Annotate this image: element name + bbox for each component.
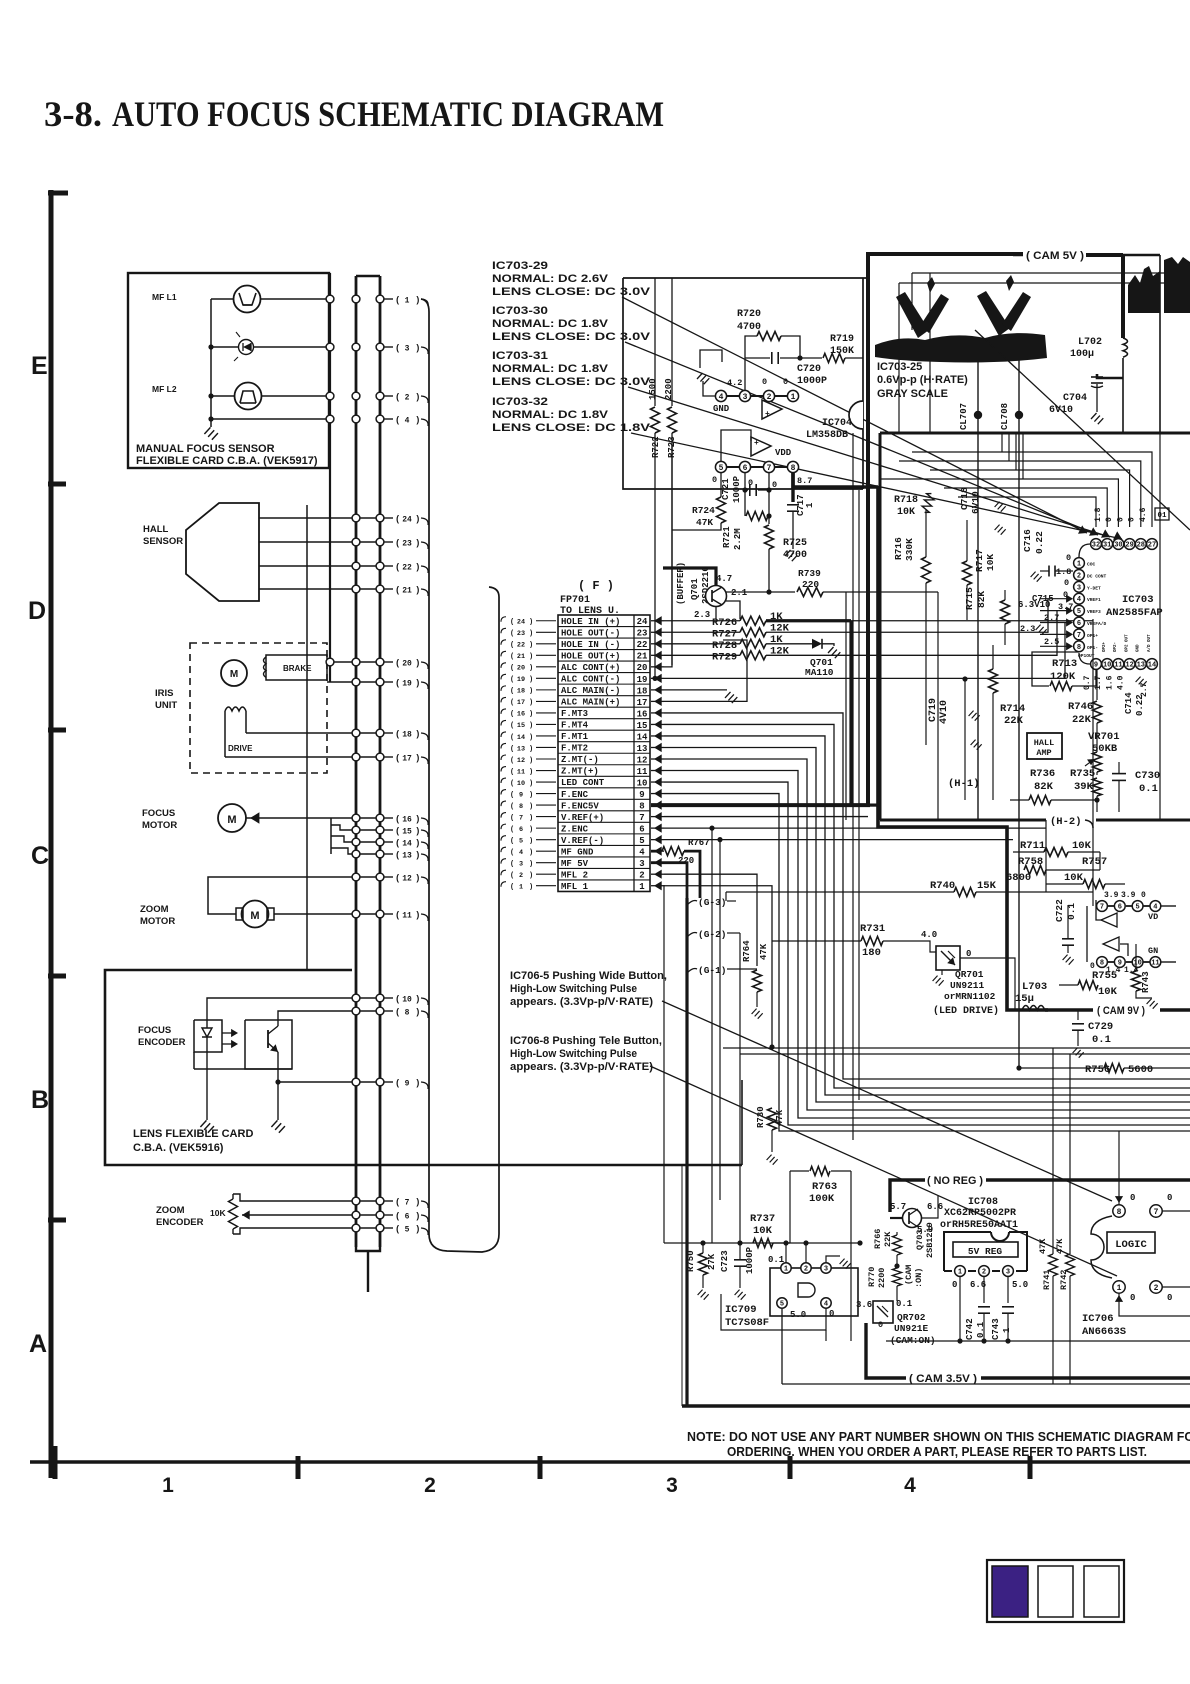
- svg-text:High-Low Switching Pulse: High-Low Switching Pulse: [510, 1048, 637, 1060]
- svg-text:V.REF(-): V.REF(-): [561, 836, 604, 846]
- svg-text:23: 23: [517, 630, 525, 638]
- bottom heavy rail: [682, 1404, 1190, 1408]
- svg-text:NORMAL: DC 1.8V: NORMAL: DC 1.8V: [492, 363, 609, 375]
- swatch outer box: [987, 1560, 1124, 1622]
- FP701 pin 2 hook: [501, 870, 506, 875]
- svg-text:9: 9: [1094, 662, 1098, 670]
- svg-text:5V REG: 5V REG: [968, 1246, 1003, 1257]
- FP701 pin 23 hook: [501, 628, 506, 633]
- svg-text:(: (: [395, 562, 400, 572]
- svg-text:): ): [415, 994, 420, 1004]
- bus junction circles row 13: [352, 850, 360, 858]
- svg-text:(: (: [395, 295, 400, 305]
- svg-text:4: 4: [824, 1301, 828, 1309]
- svg-text:(: (: [510, 768, 514, 776]
- digital transistor QR702: [873, 1301, 893, 1323]
- svg-text:IC703: IC703: [1122, 594, 1154, 606]
- svg-text:R714: R714: [1000, 703, 1025, 715]
- svg-text:IC706-8 Pushing Tele Button,: IC706-8 Pushing Tele Button,: [510, 1035, 662, 1047]
- svg-text:0: 0: [952, 1280, 957, 1290]
- svg-text:82K: 82K: [1034, 781, 1054, 793]
- svg-text:(: (: [510, 826, 514, 834]
- svg-text:): ): [529, 688, 533, 696]
- FP701 pin 17 hook: [501, 697, 506, 702]
- connector pin ( 4 ): [384, 418, 393, 420]
- svg-text:R728: R728: [712, 640, 737, 652]
- FP701 pin 1 hook: [501, 882, 506, 887]
- svg-text:6: 6: [1118, 904, 1122, 912]
- svg-text:C716: C716: [1022, 529, 1033, 552]
- svg-text:0: 0: [878, 1320, 883, 1330]
- svg-text:ENCODER: ENCODER: [138, 1037, 186, 1048]
- IC704 board box: [623, 278, 863, 489]
- svg-text:2: 2: [767, 393, 772, 402]
- svg-text:AN6663S: AN6663S: [1082, 1326, 1126, 1338]
- svg-text:2: 2: [1154, 1284, 1159, 1293]
- leader line IC703-30: [625, 342, 1098, 535]
- svg-text:3: 3: [743, 393, 748, 402]
- svg-text:LM358DB: LM358DB: [806, 430, 848, 441]
- svg-text:21: 21: [517, 653, 525, 661]
- svg-text:7: 7: [1077, 632, 1081, 640]
- svg-text:4: 4: [639, 848, 645, 858]
- bus junction circles row 4: [326, 415, 334, 423]
- svg-text:MFL 1: MFL 1: [561, 882, 589, 892]
- FP701 pin 5 hook: [501, 836, 506, 841]
- svg-text:A/D OUT: A/D OUT: [1147, 634, 1152, 652]
- svg-text:3: 3: [1077, 584, 1081, 592]
- svg-text:R755: R755: [1092, 970, 1117, 982]
- svg-text:): ): [415, 873, 420, 883]
- svg-text:): ): [529, 849, 533, 857]
- svg-text:2.7: 2.7: [1044, 613, 1059, 623]
- cable loop line: [421, 299, 499, 1252]
- svg-text:16: 16: [402, 815, 412, 824]
- svg-text:(: (: [395, 994, 400, 1004]
- svg-text:R767: R767: [688, 838, 710, 848]
- svg-text:2: 2: [1077, 572, 1081, 580]
- ground pin4: [703, 381, 715, 396]
- hall amp box: [1027, 733, 1062, 759]
- wire IC708 pin1 down: [959, 1277, 961, 1341]
- bus junction circles row 9: [352, 1078, 360, 1086]
- svg-text:10: 10: [1103, 662, 1111, 670]
- bus junction circles row 18: [352, 729, 360, 737]
- wire encoder to pin9: [278, 1081, 380, 1083]
- svg-text:ALC MAIN(+): ALC MAIN(+): [561, 698, 620, 708]
- svg-text:9: 9: [639, 790, 644, 800]
- connector pin ( 14 ): [384, 841, 393, 843]
- svg-text:6800: 6800: [1006, 872, 1031, 884]
- svg-text:NORMAL: DC 1.8V: NORMAL: DC 1.8V: [492, 318, 609, 330]
- svg-text:Q701: Q701: [690, 578, 700, 600]
- connector pin ( 7 ): [384, 1200, 393, 1202]
- svg-text:GRAY SCALE: GRAY SCALE: [877, 388, 948, 400]
- wire FP701 pin 10 run: [664, 782, 1190, 1125]
- svg-text:3: 3: [639, 859, 644, 869]
- svg-text:0: 0: [712, 475, 717, 485]
- svg-text:(: (: [395, 826, 400, 836]
- svg-text:(: (: [510, 803, 514, 811]
- svg-text:R766: R766: [873, 1229, 883, 1249]
- svg-text:0: 0: [783, 377, 788, 387]
- wire pin5 run: [664, 839, 1013, 841]
- svg-text:3-8.: 3-8.: [44, 94, 102, 134]
- wires lower-left of IC703: [937, 592, 939, 820]
- drive coil: [225, 707, 246, 711]
- resistor R729: [664, 654, 740, 656]
- wire IC709 pin5 down: [781, 1309, 783, 1384]
- svg-text:19: 19: [637, 675, 648, 685]
- svg-text:IC703-29: IC703-29: [492, 260, 548, 272]
- svg-text:): ): [415, 1007, 420, 1017]
- wire FP701 pin 11 run: [664, 771, 1190, 1118]
- svg-text:R715: R715: [964, 587, 975, 610]
- wire drive to bus 18: [246, 732, 380, 734]
- svg-text:): ): [415, 1224, 420, 1234]
- feedback wire pin5: [721, 430, 751, 461]
- svg-text:1: 1: [162, 1474, 174, 1497]
- connector pin ( 17 ): [384, 756, 393, 758]
- svg-text:ZOOM: ZOOM: [156, 1205, 185, 1216]
- svg-text:D: D: [28, 597, 46, 625]
- FP701 pin 3 hook: [501, 859, 506, 864]
- bus junction circles row 17: [352, 753, 360, 761]
- bus junction circles row 10: [352, 994, 360, 1002]
- svg-text:6V10: 6V10: [970, 491, 981, 514]
- wire pin1 run: [664, 886, 772, 1047]
- svg-text::ON): :ON): [914, 1268, 924, 1288]
- wire zoom motor lower: [274, 913, 380, 915]
- wire Q701 collector thick: [663, 568, 716, 586]
- svg-text:(: (: [510, 642, 514, 650]
- svg-text:): ): [529, 630, 533, 638]
- svg-text:150K: 150K: [830, 346, 854, 357]
- svg-text:OP2 OUT: OP2 OUT: [1125, 634, 1129, 652]
- svg-text:5: 5: [780, 1301, 784, 1309]
- svg-text:24: 24: [637, 617, 648, 627]
- svg-text:MF 5V: MF 5V: [561, 859, 589, 869]
- thick vertical trunk: [685, 898, 688, 1406]
- svg-text:(: (: [510, 884, 514, 892]
- IC709 logic gate: [770, 1268, 858, 1316]
- svg-text:3: 3: [824, 1266, 828, 1274]
- svg-text:4: 4: [1077, 596, 1081, 604]
- svg-text:F.MT2: F.MT2: [561, 744, 588, 754]
- svg-text:AN2585FAP: AN2585FAP: [1106, 607, 1163, 619]
- FP701 pin 21 hook: [501, 651, 506, 656]
- svg-text:R770: R770: [867, 1267, 877, 1287]
- svg-text:): ): [529, 837, 533, 845]
- wire FP701 pin 9 run: [664, 794, 1190, 1131]
- svg-text:): ): [415, 838, 420, 848]
- svg-text:2: 2: [519, 872, 523, 880]
- svg-text:12: 12: [637, 755, 648, 765]
- svg-text:180: 180: [862, 947, 881, 959]
- FP701 pin 7 hook: [501, 813, 506, 818]
- svg-text:MFL 2: MFL 2: [561, 870, 588, 880]
- svg-text:7: 7: [1100, 904, 1104, 912]
- svg-text:): ): [415, 910, 420, 920]
- svg-text:5: 5: [405, 1225, 410, 1234]
- svg-text:R724: R724: [692, 505, 715, 516]
- svg-text:15K: 15K: [977, 880, 997, 892]
- svg-text:(: (: [510, 619, 514, 627]
- svg-text:23: 23: [402, 539, 412, 548]
- wire encoder to pin8: [278, 1011, 380, 1020]
- page border bracket left: [49, 190, 54, 1478]
- svg-text:22K: 22K: [1072, 714, 1092, 726]
- encoder arrows: [222, 1032, 236, 1034]
- svg-text:UN9211: UN9211: [950, 980, 985, 991]
- svg-text:): ): [529, 699, 533, 707]
- flag CAM 9V: [1045, 1008, 1093, 1012]
- svg-text:18: 18: [402, 730, 412, 739]
- svg-text:1: 1: [805, 502, 815, 508]
- svg-text:R717: R717: [974, 549, 985, 572]
- svg-text:R725: R725: [783, 538, 807, 549]
- svg-text:(: (: [395, 1007, 400, 1017]
- svg-text:3: 3: [1006, 1269, 1010, 1277]
- hall sensor: [186, 503, 259, 601]
- svg-text:220: 220: [802, 579, 819, 590]
- waveform blob gray scale: [875, 333, 1047, 362]
- svg-text:): ): [529, 722, 533, 730]
- wire pin20 up: [664, 444, 672, 667]
- svg-text:): ): [529, 757, 533, 765]
- svg-text:AMP: AMP: [1036, 748, 1051, 758]
- ground encoder led: [200, 1120, 206, 1127]
- svg-text:22K: 22K: [883, 1231, 893, 1247]
- svg-text:SENSOR: SENSOR: [143, 536, 183, 547]
- svg-text:18: 18: [637, 686, 648, 696]
- svg-text:5: 5: [519, 837, 523, 845]
- connector pin ( 3 ): [384, 346, 393, 348]
- svg-text:12K: 12K: [770, 622, 790, 634]
- svg-text:VREF1: VREF1: [1087, 597, 1101, 603]
- encoder phototransistor: [267, 1030, 269, 1048]
- svg-text:19: 19: [517, 676, 525, 684]
- bus junction circles row 23: [352, 538, 360, 546]
- svg-text:(: (: [510, 872, 514, 880]
- bus junction circles row 15: [352, 826, 360, 834]
- svg-text:(: (: [395, 838, 400, 848]
- op-amp triangle A: [762, 400, 782, 419]
- leader line IC703-31: [628, 387, 1110, 537]
- svg-text:13: 13: [402, 851, 412, 860]
- svg-text:C730: C730: [1135, 770, 1160, 782]
- svg-text:(: (: [395, 585, 400, 595]
- svg-text:3.6: 3.6: [856, 1300, 872, 1310]
- svg-text:14: 14: [402, 839, 412, 848]
- connector pin ( 23 ): [384, 541, 393, 543]
- svg-text:GND: GND: [713, 404, 730, 414]
- op-amp IC704 pins 5..8: [715, 461, 726, 472]
- connector pin ( 5 ): [384, 1227, 393, 1229]
- svg-text:(G-3): (G-3): [698, 897, 727, 908]
- FP701 pin 10 hook: [501, 778, 506, 783]
- svg-text:14: 14: [1148, 662, 1156, 670]
- svg-text:1: 1: [405, 296, 410, 305]
- svg-text:AUTO FOCUS SCHEMATIC DIAGRAM: AUTO FOCUS SCHEMATIC DIAGRAM: [112, 94, 664, 134]
- svg-text:): ): [415, 1197, 420, 1207]
- wire pin21 run: [766, 611, 1057, 655]
- ruler ticks: [53, 1446, 58, 1479]
- connector pin ( 1 ): [384, 298, 393, 300]
- svg-text:(: (: [395, 814, 400, 824]
- svg-text:orRH5RE50AAT1: orRH5RE50AAT1: [940, 1220, 1018, 1231]
- svg-text:): ): [529, 860, 533, 868]
- svg-text:): ): [415, 392, 420, 402]
- wire pin8 F.ENC5V thick run: [651, 254, 1023, 805]
- leader line IC703-32: [631, 433, 1122, 539]
- svg-text:20: 20: [517, 665, 525, 673]
- svg-text:): ): [415, 585, 420, 595]
- svg-text:): ): [529, 665, 533, 673]
- svg-text:22K: 22K: [1004, 715, 1024, 727]
- FP701 pin 18 hook: [501, 686, 506, 691]
- connector pin ( 18 ): [384, 732, 393, 734]
- brake coil: [266, 655, 327, 680]
- svg-text:R741: R741: [1042, 1270, 1052, 1290]
- svg-text:R716: R716: [893, 537, 904, 560]
- svg-text:DRIVE: DRIVE: [228, 744, 253, 753]
- svg-text:8: 8: [519, 803, 523, 811]
- bus junction circles row 6: [352, 1211, 360, 1219]
- svg-text:0: 0: [1064, 578, 1069, 588]
- svg-text:2: 2: [639, 871, 644, 881]
- svg-text:3: 3: [519, 860, 523, 868]
- svg-text:12: 12: [402, 874, 412, 883]
- svg-text:E: E: [31, 352, 48, 380]
- digital transistor QR701: [936, 946, 960, 970]
- svg-text:0.7: 0.7: [1083, 675, 1092, 690]
- transistor QR703: [903, 1209, 922, 1228]
- svg-text:9: 9: [405, 1079, 410, 1088]
- svg-text:(: (: [395, 514, 400, 524]
- svg-text:20: 20: [402, 659, 412, 668]
- capacitor C730: [1112, 773, 1126, 775]
- svg-text:IC703-31: IC703-31: [492, 350, 548, 362]
- svg-text:): ): [415, 1078, 420, 1088]
- svg-text:(: (: [510, 722, 514, 730]
- svg-text:1.8: 1.8: [1094, 507, 1103, 522]
- svg-text:R719: R719: [830, 334, 854, 345]
- manual focus sensor flexible card box: [128, 273, 329, 468]
- svg-text:0: 0: [829, 1309, 834, 1319]
- connector pin ( 6 ): [384, 1214, 393, 1216]
- op-amp pins 8 9 10 11: [1097, 957, 1108, 968]
- svg-text:5: 5: [719, 464, 724, 473]
- wire hall sensor: [259, 565, 380, 567]
- wire pin6 run: [664, 827, 1046, 829]
- svg-text:IC703-32: IC703-32: [492, 396, 548, 408]
- svg-text:23: 23: [637, 629, 648, 639]
- svg-text:R757: R757: [1082, 856, 1107, 868]
- svg-text:): ): [415, 514, 420, 524]
- svg-text:OP2+: OP2+: [1103, 641, 1107, 652]
- capacitor C720: [745, 357, 770, 359]
- svg-text:IC709: IC709: [725, 1304, 757, 1316]
- svg-text:): ): [529, 653, 533, 661]
- flag CAM 3.5V: [866, 1323, 906, 1378]
- svg-text:1500: 1500: [648, 378, 658, 400]
- bus junction circles row 5: [352, 1224, 360, 1232]
- wire brake to bus: [327, 661, 380, 663]
- connector pin ( 21 ): [384, 588, 393, 590]
- svg-text:): ): [415, 415, 420, 425]
- svg-text:HOLE IN (-): HOLE IN (-): [561, 640, 620, 650]
- svg-text:14: 14: [517, 734, 525, 742]
- svg-text:47K: 47K: [1038, 1238, 1048, 1254]
- wire pin2 run: [664, 874, 757, 966]
- FP701 pin 24 hook: [501, 617, 506, 622]
- LED K1: [239, 340, 254, 355]
- svg-text:5: 5: [1077, 608, 1081, 616]
- svg-text:32: 32: [1092, 542, 1100, 550]
- svg-text:2.3: 2.3: [1020, 624, 1035, 634]
- svg-text:01: 01: [1157, 512, 1167, 520]
- svg-text:Z.MT(+): Z.MT(+): [561, 767, 599, 777]
- connector pin ( 20 ): [384, 661, 393, 663]
- svg-text:C720: C720: [797, 364, 821, 375]
- svg-text:C714: C714: [1124, 692, 1134, 714]
- svg-text:OP2-: OP2-: [1114, 642, 1118, 652]
- svg-text:1: 1: [639, 882, 645, 892]
- svg-text:4700: 4700: [783, 550, 807, 561]
- capacitor C729: [1077, 1010, 1079, 1020]
- resistor R727: [664, 631, 740, 633]
- svg-text:(: (: [510, 734, 514, 742]
- svg-text:C: C: [31, 842, 49, 870]
- svg-text:F.MT1: F.MT1: [561, 732, 589, 742]
- svg-text:17: 17: [637, 698, 648, 708]
- svg-text:(: (: [510, 699, 514, 707]
- svg-text:R740: R740: [930, 880, 955, 892]
- svg-text:C718: C718: [959, 487, 970, 510]
- op-amp IC704 pins 4..1: [715, 390, 726, 401]
- thick wire pin8 to bus: [793, 473, 878, 487]
- FP701 connector table: [558, 615, 650, 891]
- IC703 pins 1..8: [1074, 558, 1085, 569]
- connector pin ( 15 ): [384, 829, 393, 831]
- svg-text:): ): [529, 826, 533, 834]
- svg-text:IRIS: IRIS: [155, 688, 173, 699]
- svg-text:(H-2): (H-2): [1050, 816, 1082, 828]
- svg-text:CL708: CL708: [1000, 403, 1010, 430]
- svg-text:(: (: [395, 910, 400, 920]
- wire hall sensor: [259, 517, 380, 519]
- svg-text:0.1: 0.1: [896, 1299, 913, 1309]
- svg-text:(: (: [510, 860, 514, 868]
- svg-text:(: (: [510, 780, 514, 788]
- svg-text:1: 1: [519, 884, 523, 892]
- svg-text:(: (: [510, 791, 514, 799]
- svg-text:13: 13: [1137, 662, 1145, 670]
- flag G-3: [687, 901, 697, 906]
- svg-text:27: 27: [1148, 542, 1156, 550]
- svg-text:L702: L702: [1078, 337, 1102, 348]
- svg-text:NOTE: DO NOT USE ANY PART NUMB: NOTE: DO NOT USE ANY PART NUMBER SHOWN O…: [687, 1430, 1190, 1444]
- bus junction circles row 1: [326, 295, 334, 303]
- svg-text:F.MT4: F.MT4: [561, 721, 589, 731]
- svg-text:XC62RP5002PR: XC62RP5002PR: [944, 1208, 1016, 1219]
- zoom encoder wires: [233, 1194, 380, 1201]
- svg-text:VDD: VDD: [775, 448, 792, 458]
- white swatch 3: [1084, 1566, 1119, 1617]
- svg-text:10: 10: [517, 780, 525, 788]
- svg-text:(: (: [395, 1078, 400, 1088]
